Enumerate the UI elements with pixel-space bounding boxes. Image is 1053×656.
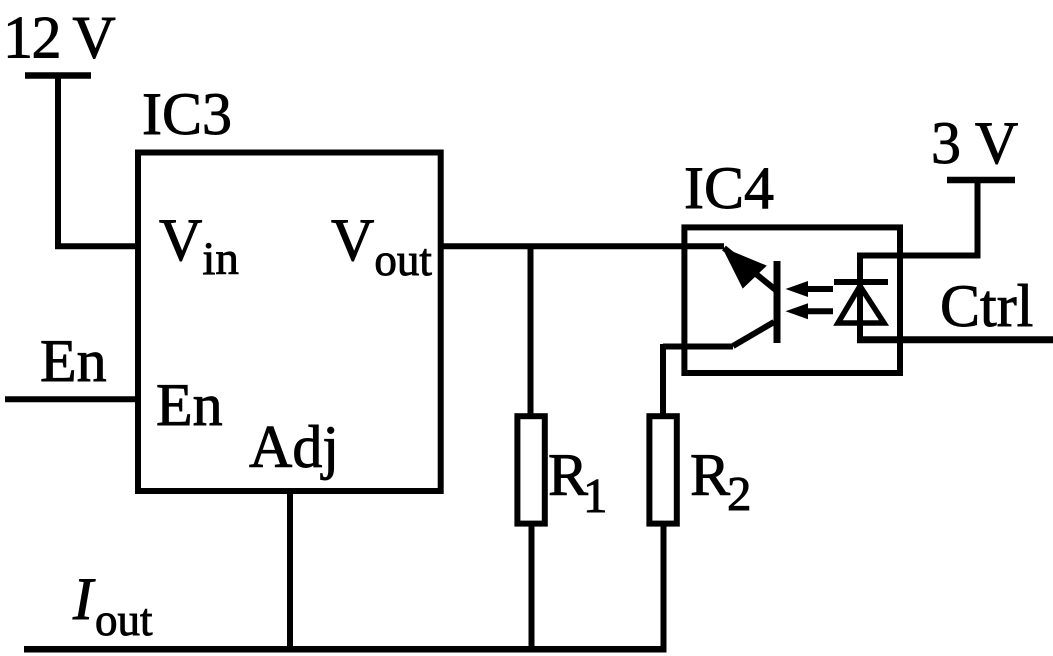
svg-text:3 V: 3 V	[931, 110, 1018, 176]
wire 3V stem	[975, 180, 981, 259]
resistor R2	[649, 416, 676, 523]
wire bottom rail Iout	[24, 646, 667, 653]
wire R2 top	[660, 344, 666, 416]
wire emitter to R2	[663, 344, 733, 350]
svg-text:IC3: IC3	[142, 81, 232, 147]
svg-text:1: 1	[583, 468, 608, 523]
wire 12V to Vin pin	[55, 243, 141, 249]
transistor Q1 emitter diagonal	[733, 322, 774, 346]
LED D1 axis	[857, 253, 863, 343]
transistor Q1 base bar	[774, 261, 781, 343]
optocoupler IC4 box	[684, 227, 900, 373]
power rail 3V bar	[947, 177, 1015, 184]
transistor Q1 collector diagonal	[724, 248, 777, 291]
wire Vout node	[441, 243, 724, 249]
wire En to IC3	[5, 396, 138, 402]
svg-text:Ctrl: Ctrl	[940, 273, 1033, 339]
transistor Q1 collector arrowhead	[724, 249, 765, 287]
svg-text:I: I	[72, 566, 96, 632]
svg-text:12 V: 12 V	[3, 5, 115, 71]
wire LED top to 3V	[857, 253, 977, 259]
power rail 12V bar	[25, 72, 91, 79]
wire R2 bottom	[661, 524, 667, 650]
svg-text:2: 2	[727, 466, 752, 521]
LED D1 triangle	[838, 286, 884, 323]
svg-text:out: out	[95, 595, 153, 645]
wire R1 top	[528, 246, 534, 416]
svg-text:En: En	[156, 372, 223, 438]
regulator IC3 box	[138, 153, 441, 492]
svg-text:Adj: Adj	[249, 414, 339, 480]
svg-text:IC4: IC4	[684, 155, 774, 221]
svg-text:R: R	[690, 442, 730, 508]
light arrow lower	[806, 308, 833, 314]
resistor R1	[517, 416, 544, 523]
LED D1 cathode bar	[834, 279, 888, 285]
wire Adj pin down	[287, 491, 293, 650]
light arrow upper	[806, 286, 833, 292]
wire R1 bottom	[529, 524, 535, 650]
svg-text:En: En	[40, 328, 107, 394]
wire 12V stem	[55, 73, 61, 247]
wire Ctrl rail	[857, 336, 1053, 343]
